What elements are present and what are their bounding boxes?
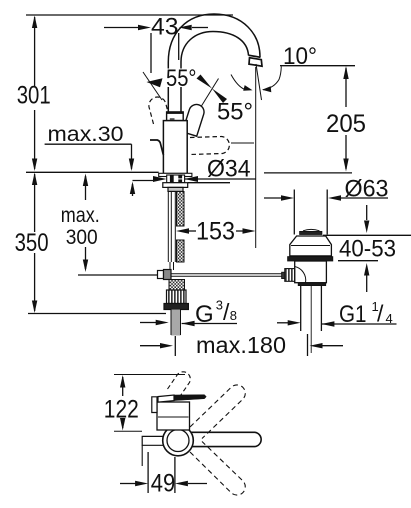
- hose hatched lower: [169, 280, 185, 291]
- svg-text:max.180: max.180: [196, 332, 286, 358]
- spout outlet cap: [249, 55, 263, 66]
- top reference line: [26, 14, 233, 16]
- dimension Ø34 with deck bottom line: [133, 176, 257, 183]
- dimension 40-53: [323, 205, 411, 292]
- lever solid (top view): [180, 432, 261, 446]
- dimension 301: [32, 16, 37, 172]
- svg-text:122: 122: [104, 396, 139, 424]
- dimension 350: [32, 173, 37, 314]
- svg-text:40-53: 40-53: [339, 236, 396, 263]
- outlet vertical reference line: [255, 67, 257, 248]
- tailpipe: [301, 286, 322, 331]
- svg-text:Ø34: Ø34: [207, 156, 251, 183]
- svg-text:4: 4: [386, 311, 393, 326]
- lever dashed rotated down-right: [190, 442, 245, 496]
- drain gasket: [288, 257, 333, 261]
- drain flange: [290, 236, 332, 256]
- svg-text:300: 300: [66, 226, 98, 249]
- svg-text:G: G: [195, 301, 214, 328]
- faucet body: [163, 121, 187, 174]
- spout arc inner: [181, 32, 249, 113]
- bottom reference line (hose ends): [28, 313, 166, 315]
- supply hose tube (left column): [168, 192, 175, 263]
- escutcheon base plate: [159, 173, 192, 176]
- 55° label upper-left: [164, 69, 198, 88]
- leader max.30: [45, 144, 136, 196]
- rod coupling: [158, 271, 164, 279]
- svg-text:205: 205: [326, 110, 366, 138]
- escutcheon block with stripes: [167, 175, 185, 183]
- lever dashed up (top view): [168, 372, 191, 397]
- svg-text:max.: max.: [61, 204, 100, 227]
- svg-text:8: 8: [230, 308, 237, 323]
- svg-text:/: /: [377, 301, 384, 327]
- svg-text:Ø63: Ø63: [345, 176, 389, 203]
- dimension 153: [176, 228, 256, 233]
- threaded shank (hatched column): [177, 192, 185, 263]
- 10° tilted outlet axis: [256, 64, 262, 100]
- svg-text:3: 3: [216, 298, 223, 313]
- lever solid up position: [182, 104, 204, 136]
- base circle outer: [163, 425, 194, 456]
- pop-up rod (horizontal): [78, 274, 158, 276]
- mounting nut: [168, 187, 183, 191]
- lever dashed up-left position: [149, 97, 170, 124]
- lever dashed rotated up-right: [190, 385, 245, 439]
- lever cap back: [152, 397, 157, 413]
- drain plug ring: [300, 231, 322, 234]
- drain tube upper: [294, 190, 327, 235]
- dimension G1 1/4: [277, 320, 397, 327]
- G3/8 stub: [171, 310, 181, 336]
- mounting washer: [163, 183, 188, 188]
- leader from dashed lever tip: [231, 142, 254, 144]
- 10° angle arc arrows: [231, 75, 245, 90]
- svg-text:49: 49: [151, 470, 176, 498]
- hose lower section: [170, 262, 174, 270]
- rod knob (knurled): [285, 269, 295, 282]
- dimension max.300: [83, 174, 88, 273]
- dimension 205: [343, 66, 348, 172]
- 55° indicator left (line + wedge): [143, 72, 162, 100]
- hose end connectors (knurled): [167, 290, 187, 304]
- dimension 49: [120, 452, 207, 493]
- drain body: [295, 261, 327, 283]
- lever dashed horizontal position: [190, 137, 229, 155]
- rod end cap: [282, 272, 285, 278]
- top extension line: [114, 374, 185, 376]
- faucet collar: [167, 112, 184, 121]
- bottom extension line: [114, 430, 142, 432]
- rod boss arc: [295, 267, 306, 283]
- body (top view): [157, 402, 190, 430]
- pop-up knob (side): [150, 140, 163, 155]
- left tab: [142, 436, 163, 445]
- 55° indicator right (line + bowtie + arc): [201, 79, 219, 108]
- svg-text:max.30: max.30: [48, 123, 124, 146]
- deck top line: [26, 171, 159, 173]
- dimension 122: [120, 375, 125, 431]
- svg-text:153: 153: [196, 218, 235, 246]
- drain nut: [298, 283, 326, 286]
- svg-text:55°: 55°: [166, 65, 197, 92]
- tailpipe centerline: [310, 286, 312, 353]
- spout arc outer: [168, 14, 260, 112]
- svg-text:G1: G1: [339, 301, 367, 328]
- dimension G3/8: [140, 320, 237, 326]
- lever blade (edge-on): [158, 395, 174, 402]
- svg-text:55°: 55°: [217, 99, 253, 126]
- base circle inner: [167, 430, 189, 452]
- svg-text:350: 350: [15, 229, 49, 257]
- dimension max.180: [140, 334, 343, 356]
- drain plug dome: [303, 229, 320, 230]
- svg-text:301: 301: [17, 82, 51, 110]
- hex nut: [164, 304, 188, 310]
- dimension 43: [104, 25, 208, 73]
- dimension Ø63: [264, 195, 388, 200]
